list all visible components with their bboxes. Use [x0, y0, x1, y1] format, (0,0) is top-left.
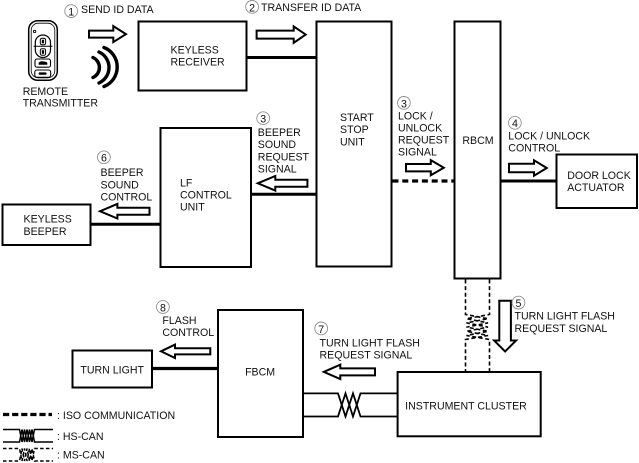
svg-text:REQUEST SIGNAL: REQUEST SIGNAL — [320, 349, 413, 361]
svg-text:LOCK /: LOCK / — [398, 110, 433, 122]
svg-text:: MS-CAN: : MS-CAN — [57, 450, 105, 462]
svg-text:TRANSFER ID DATA: TRANSFER ID DATA — [261, 2, 362, 14]
svg-text:FBCM: FBCM — [245, 367, 275, 379]
svg-text:6: 6 — [101, 153, 107, 165]
svg-text:UNLOCK: UNLOCK — [398, 122, 442, 134]
svg-text:TURN LIGHT FLASH: TURN LIGHT FLASH — [320, 338, 420, 350]
svg-text:FLASH: FLASH — [162, 315, 196, 327]
svg-text:RECEIVER: RECEIVER — [171, 57, 226, 69]
svg-text:5: 5 — [516, 298, 522, 310]
svg-text:REQUEST SIGNAL: REQUEST SIGNAL — [515, 323, 608, 335]
svg-text:UNIT: UNIT — [340, 136, 365, 148]
svg-text:3: 3 — [401, 98, 407, 110]
svg-text:UNIT: UNIT — [180, 201, 205, 213]
svg-text:SOUND: SOUND — [258, 139, 297, 151]
svg-text:: ISO COMMUNICATION: : ISO COMMUNICATION — [57, 410, 175, 422]
svg-text:INSTRUMENT CLUSTER: INSTRUMENT CLUSTER — [405, 400, 527, 412]
svg-text:START: START — [340, 112, 374, 124]
svg-text:DOOR LOCK: DOOR LOCK — [567, 170, 631, 182]
svg-text:BEEPER: BEEPER — [24, 226, 67, 238]
svg-text:TRANSMITTER: TRANSMITTER — [23, 98, 99, 110]
svg-text:: HS-CAN: : HS-CAN — [57, 431, 104, 443]
svg-text:CONTROL: CONTROL — [180, 189, 232, 201]
svg-text:TURN LIGHT: TURN LIGHT — [80, 364, 144, 376]
svg-text:7: 7 — [318, 324, 324, 336]
svg-text:3: 3 — [260, 114, 266, 126]
svg-text:TURN LIGHT FLASH: TURN LIGHT FLASH — [515, 311, 615, 323]
svg-text:KEYLESS: KEYLESS — [24, 214, 72, 226]
svg-text:LOCK / UNLOCK: LOCK / UNLOCK — [508, 131, 590, 143]
svg-text:8: 8 — [160, 302, 166, 314]
svg-text:KEYLESS: KEYLESS — [171, 45, 219, 57]
svg-text:LF: LF — [180, 177, 193, 189]
svg-text:4: 4 — [512, 118, 518, 130]
svg-text:STOP: STOP — [340, 124, 369, 136]
svg-text:REMOTE: REMOTE — [23, 86, 68, 98]
svg-text:2: 2 — [249, 2, 255, 14]
svg-text:RBCM: RBCM — [462, 135, 493, 147]
svg-text:BEEPER: BEEPER — [101, 167, 144, 179]
svg-text:REQUEST: REQUEST — [258, 151, 310, 163]
svg-text:BEEPER: BEEPER — [258, 127, 301, 139]
svg-text:SEND ID DATA: SEND ID DATA — [81, 4, 155, 16]
svg-text:1: 1 — [68, 7, 74, 19]
svg-text:SOUND: SOUND — [101, 179, 140, 191]
svg-text:CONTROL: CONTROL — [101, 191, 153, 203]
svg-text:ACTUATOR: ACTUATOR — [567, 182, 625, 194]
svg-text:REQUEST: REQUEST — [398, 134, 450, 146]
svg-text:SIGNAL: SIGNAL — [258, 164, 297, 176]
svg-text:CONTROL: CONTROL — [162, 327, 214, 339]
svg-text:SIGNAL: SIGNAL — [398, 146, 437, 158]
svg-text:CONTROL: CONTROL — [508, 142, 560, 154]
